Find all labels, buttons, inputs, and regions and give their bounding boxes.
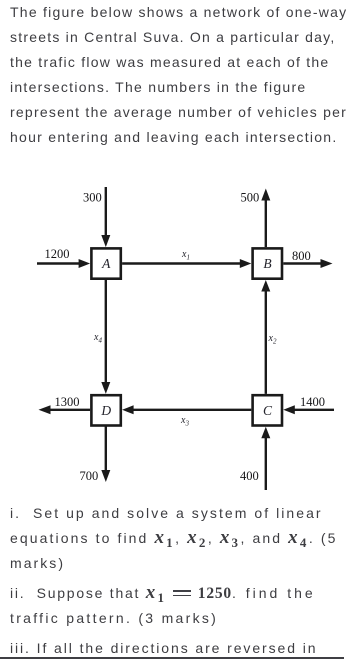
svg-text:500: 500 bbox=[241, 191, 260, 205]
svg-text:x4: x4 bbox=[93, 332, 102, 345]
svg-text:A: A bbox=[101, 256, 111, 271]
svg-text:x2: x2 bbox=[268, 333, 277, 346]
svg-text:800: 800 bbox=[292, 249, 311, 263]
svg-text:1200: 1200 bbox=[45, 247, 70, 261]
svg-text:400: 400 bbox=[240, 469, 259, 483]
svg-text:C: C bbox=[263, 403, 273, 418]
svg-text:1300: 1300 bbox=[55, 395, 80, 409]
svg-text:300: 300 bbox=[83, 191, 102, 205]
svg-text:700: 700 bbox=[80, 469, 99, 483]
svg-text:x3: x3 bbox=[180, 415, 189, 428]
svg-text:x1: x1 bbox=[181, 249, 190, 262]
svg-text:1400: 1400 bbox=[300, 395, 325, 409]
svg-text:B: B bbox=[263, 256, 271, 271]
svg-text:D: D bbox=[100, 403, 111, 418]
